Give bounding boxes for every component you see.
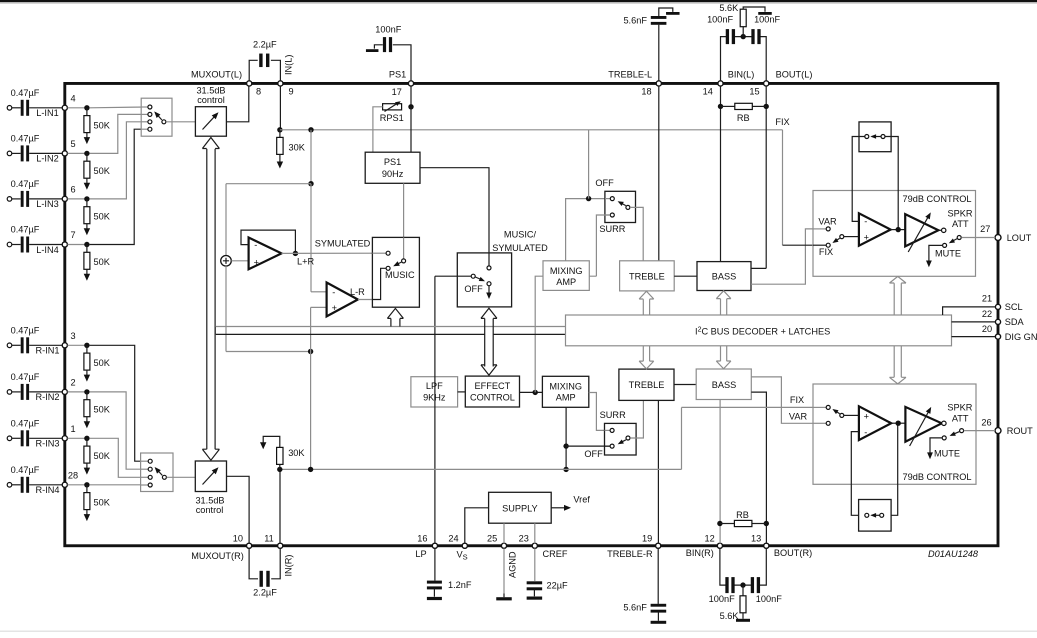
svg-text:79dB CONTROL: 79dB CONTROL xyxy=(903,472,972,482)
capacitor 5.6nF at TREBLE-L (top) xyxy=(658,25,660,81)
wire junction to summing node column xyxy=(226,183,311,185)
svg-text:26: 26 xyxy=(981,417,991,427)
wire pin 2 to 50K junction xyxy=(68,391,87,393)
svg-text:VAR: VAR xyxy=(789,411,808,421)
wire PS1 90Hz bottom to MUSIC selector right contact xyxy=(403,183,405,258)
resistor RB (lower) xyxy=(717,521,722,526)
feedback selector box (upper) xyxy=(859,122,891,152)
svg-text:0.47µF: 0.47µF xyxy=(11,133,40,143)
svg-text:3: 3 xyxy=(70,331,75,341)
svg-text:R-IN1: R-IN1 xyxy=(36,346,60,356)
wire L-R output to MUSIC selector lower contact xyxy=(358,299,381,301)
svg-text:50K: 50K xyxy=(94,451,111,461)
svg-text:5.6nF: 5.6nF xyxy=(623,602,647,612)
resistor 50K (R-IN3) xyxy=(86,438,88,446)
svg-text:79dB CONTROL: 79dB CONTROL xyxy=(903,194,972,204)
input terminal R-IN1 xyxy=(7,343,12,348)
resistor 50K (L-IN4) xyxy=(86,245,88,253)
svg-text:LOUT: LOUT xyxy=(1007,233,1032,243)
31.5dB control block (left) xyxy=(195,107,226,137)
svg-text:FIX: FIX xyxy=(819,247,833,257)
wire pin 9 down to 30K junction (IN(L) node) xyxy=(279,86,281,130)
svg-text:FIX: FIX xyxy=(790,395,804,405)
svg-text:MUTE: MUTE xyxy=(935,249,961,259)
svg-text:ATT: ATT xyxy=(952,413,969,423)
svg-text:R-IN4: R-IN4 xyxy=(36,485,60,495)
svg-text:-: - xyxy=(864,427,867,437)
svg-text:VAR: VAR xyxy=(818,217,837,227)
capacitors 2x 100nF between BIN(L) and BOUT(L) xyxy=(721,37,767,81)
pin 1 xyxy=(62,436,67,441)
hollow control arrow decoder to 79dB control (upper) xyxy=(893,283,895,315)
capacitor 0.47µF (R-IN1) xyxy=(12,344,21,346)
svg-text:0.47µF: 0.47µF xyxy=(11,88,40,98)
input terminal R-IN4 xyxy=(7,483,12,488)
VAR/FIX switch (upper) xyxy=(826,227,830,231)
svg-text:14: 14 xyxy=(703,87,713,97)
capacitor 0.47µF (L-IN4) xyxy=(12,244,21,246)
pin 7 xyxy=(62,242,67,247)
wire TREBLE to BASS (upper) xyxy=(674,275,697,277)
svg-text:100nF: 100nF xyxy=(707,15,733,25)
wire FIX (lower) from R-channel line xyxy=(682,407,827,469)
wire EFFECT CONTROL output to mixing amps xyxy=(520,391,543,393)
svg-text:20: 20 xyxy=(982,324,992,334)
hollow control arrow decoder to BASS (upper) xyxy=(720,299,722,315)
svg-text:50K: 50K xyxy=(94,404,111,414)
wire L-IN4/pin7 to mux-L contact 4 xyxy=(90,129,148,244)
svg-text:TREBLE-L: TREBLE-L xyxy=(608,69,652,79)
wire RPS1 left to PS1 90Hz input xyxy=(373,107,383,152)
svg-text:31.5dB: 31.5dB xyxy=(196,85,225,95)
svg-text:R-IN3: R-IN3 xyxy=(36,439,60,449)
svg-text:2.2µF: 2.2µF xyxy=(253,588,277,598)
block PS1 90Hz xyxy=(365,152,420,183)
wire LPF to EFFECT CONTROL xyxy=(458,391,466,393)
svg-text:MUXOUT(R): MUXOUT(R) xyxy=(191,551,244,561)
wire pin 6 to 50K junction xyxy=(68,198,87,200)
surround switch (upper) OFF/SURR xyxy=(605,191,636,222)
block I2C BUS DECODER + LATCHES xyxy=(566,315,952,346)
pin 23 CREF xyxy=(532,543,537,548)
wire pin 15 BOUT(L) to BASS right (upper) xyxy=(751,86,766,268)
wire pin 1 to 50K junction xyxy=(68,437,87,439)
wire TREBLE-L pin 18 down to TREBLE (upper) xyxy=(658,86,660,261)
pin 11 IN(R) xyxy=(278,543,283,548)
wire R-IN3/pin1 to mux-R contact 3 xyxy=(90,438,149,477)
wire stub PS1 into MUSIC box right contact xyxy=(403,237,405,258)
wire OFF contact to LPF column xyxy=(435,275,471,277)
pin 5 xyxy=(62,151,67,156)
svg-text:SPKR: SPKR xyxy=(947,402,972,412)
svg-text:SYMULATED: SYMULATED xyxy=(315,239,371,249)
gain-control bus to both 31.5dB blocks (hollow wire) xyxy=(206,149,208,449)
wire pin 4 to 50K junction xyxy=(68,107,87,109)
svg-text:MIXING: MIXING xyxy=(549,382,582,392)
input terminal L-IN4 xyxy=(7,242,12,247)
capacitor 0.47µF (R-IN2) xyxy=(12,391,21,393)
svg-text:R-IN2: R-IN2 xyxy=(36,392,60,402)
svg-text:22: 22 xyxy=(982,309,992,319)
svg-text:21: 21 xyxy=(982,294,992,304)
summing node (+) xyxy=(221,255,232,266)
wire junction up to IN(L) line xyxy=(588,130,590,199)
svg-text:DIG GND: DIG GND xyxy=(1005,332,1037,342)
pin 26 ROUT xyxy=(995,428,1001,434)
capacitor 1.2nF at LP pin 16 xyxy=(434,548,436,580)
wire lower MIXING AMP output to SURR switch xyxy=(589,393,610,431)
wire L-IN1/pin4 to mux-L contact 1 xyxy=(90,106,148,109)
pin 3 xyxy=(62,343,67,348)
control bus lower edge xyxy=(215,327,565,335)
svg-text:SPKR: SPKR xyxy=(947,209,972,219)
svg-text:BOUT(L): BOUT(L) xyxy=(776,69,813,79)
wire PS1 90Hz output to surround OFF switch (top contact) xyxy=(420,168,489,266)
pin 6 xyxy=(62,196,67,201)
svg-text:+: + xyxy=(254,257,259,267)
pin 22 SDA xyxy=(995,319,1000,324)
svg-text:22µF: 22µF xyxy=(547,580,569,590)
screen top edge bar xyxy=(0,0,1037,2)
resistor 50K (R-IN4) xyxy=(86,485,88,493)
svg-text:MUSIC/: MUSIC/ xyxy=(504,230,537,240)
mute switch (upper) xyxy=(957,236,961,240)
feedback wires (upper) xyxy=(852,137,864,222)
wire pin 3 to 50K junction xyxy=(68,344,87,346)
wire mux-R to 31.5dB control (right) xyxy=(167,476,196,478)
svg-text:ROUT: ROUT xyxy=(1007,426,1033,436)
svg-text:AMP: AMP xyxy=(556,277,576,287)
pin 16 LP xyxy=(432,543,437,548)
pin 12 BIN(R) xyxy=(717,543,722,548)
svg-text:0.47µF: 0.47µF xyxy=(11,372,40,382)
svg-text:5.6nF: 5.6nF xyxy=(623,16,647,26)
block BASS (upper) xyxy=(697,262,751,291)
wire R-IN2/pin2 to mux-R contact 2 xyxy=(90,392,149,469)
svg-text:LP: LP xyxy=(415,549,426,559)
svg-text:50K: 50K xyxy=(94,358,111,368)
wire R-IN1/pin3 to mux-R contact 1 xyxy=(90,345,149,461)
wire upper MIXING AMP output to SURR contact xyxy=(589,215,610,276)
svg-text:50K: 50K xyxy=(94,211,111,221)
block MIXING AMP (lower) xyxy=(542,376,588,407)
svg-text:6: 6 xyxy=(70,184,75,194)
svg-text:SYMULATED: SYMULATED xyxy=(492,243,548,253)
surround switch (lower) SURR/OFF xyxy=(605,423,637,455)
svg-text:L-IN2: L-IN2 xyxy=(36,154,58,164)
svg-text:1: 1 xyxy=(70,424,75,434)
hollow control branch to OFF switch and EFFECT CONTROL xyxy=(484,319,486,367)
wire down from IN(L) to L+R / L-R inputs xyxy=(310,130,312,184)
svg-text:13: 13 xyxy=(751,534,761,544)
svg-text:control: control xyxy=(197,95,225,105)
svg-text:L-IN3: L-IN3 xyxy=(36,199,58,209)
79dB CONTROL block (upper) xyxy=(813,191,976,277)
wire SUPPLY to pin 25 AGND xyxy=(503,523,505,543)
svg-text:I2C BUS DECODER + LATCHES: I2C BUS DECODER + LATCHES xyxy=(695,326,830,336)
resistor 50K (R-IN1) xyxy=(86,345,88,353)
svg-text:19: 19 xyxy=(642,534,652,544)
svg-text:TREBLE: TREBLE xyxy=(629,380,665,390)
wire TREBLE-R: TREBLE (lower) down to pin 19 xyxy=(657,400,659,543)
svg-text:0.47µF: 0.47µF xyxy=(11,225,40,235)
low-pass filter block LPF 9KHz xyxy=(411,377,458,407)
input terminal R-IN2 xyxy=(7,390,12,395)
svg-text:SCL: SCL xyxy=(1005,302,1023,312)
mute switch (lower) xyxy=(960,429,964,433)
input terminal L-IN2 xyxy=(7,151,12,156)
svg-text:AMP: AMP xyxy=(556,393,576,403)
svg-text:10: 10 xyxy=(233,534,243,544)
pin 28 xyxy=(62,482,67,487)
pin 4 xyxy=(62,105,67,110)
wire L+R output to MUSIC selector (SYMULATED) xyxy=(282,252,388,254)
svg-text:+: + xyxy=(864,233,869,243)
svg-text:5: 5 xyxy=(70,139,75,149)
wire SURR lower right contact to TREBLE (lower) xyxy=(630,400,643,438)
svg-text:Vref: Vref xyxy=(573,494,590,504)
block EFFECT CONTROL xyxy=(465,376,519,407)
pin 15 BOUT(L) xyxy=(764,81,769,86)
IC boundary box xyxy=(65,83,998,545)
79dB CONTROL block (lower) xyxy=(813,384,976,484)
wire summing node to L+R non-inverting input xyxy=(231,260,248,262)
selector switch box MUSIC/SYMULATED source xyxy=(372,237,419,307)
wire 31.5dB-R output to pin 10 xyxy=(227,476,250,543)
capacitor 0.47µF (L-IN3) xyxy=(12,198,21,200)
svg-text:30K: 30K xyxy=(289,143,306,153)
capacitor 2.2µF between pins 8 and 9 (top) xyxy=(249,60,280,81)
pin 17 PS1 xyxy=(408,81,413,86)
pin 18 TREBLE-L xyxy=(656,81,661,86)
resistor 50K (L-IN3) xyxy=(86,199,88,207)
capacitor 100nF at PS1 pin 17 xyxy=(393,45,411,81)
input terminal L-IN3 xyxy=(7,197,12,202)
svg-text:TREBLE: TREBLE xyxy=(629,272,665,282)
analog ground AGND xyxy=(503,548,505,593)
input selector mux (left) xyxy=(141,98,172,136)
Vref output arrow xyxy=(551,507,566,509)
svg-text:L-IN1: L-IN1 xyxy=(36,108,58,118)
svg-text:PS1: PS1 xyxy=(384,157,401,167)
resistor 50K (L-IN1) xyxy=(86,108,88,116)
pin 27 LOUT xyxy=(995,235,1001,241)
svg-text:L+R: L+R xyxy=(297,257,314,267)
pin 19 TREBLE-R xyxy=(656,543,661,548)
wire pin 17 junction down to PS1 90Hz xyxy=(410,107,412,152)
svg-text:5.6K: 5.6K xyxy=(719,3,739,13)
pin 9 IN(L) xyxy=(278,81,283,86)
svg-text:BASS: BASS xyxy=(712,380,737,390)
wire BASS (lower) var output to VAR contact (lower) xyxy=(751,377,826,423)
resistor 5.6K below 100nF junction (bottom) xyxy=(742,585,744,596)
svg-text:5.6K: 5.6K xyxy=(720,611,740,621)
svg-text:IN(L): IN(L) xyxy=(283,55,293,75)
svg-text:100nF: 100nF xyxy=(709,594,735,604)
input terminal L-IN1 xyxy=(7,106,12,111)
hollow control arrow decoder to TREBLE (lower) xyxy=(642,346,644,361)
control bus upper edge (to 31.5dB/MUSIC/OFF controls) xyxy=(215,326,565,328)
svg-text:25: 25 xyxy=(487,534,497,544)
wire stub FIX into 79dB box (upper) xyxy=(813,244,826,246)
svg-text:PS1: PS1 xyxy=(389,69,406,79)
svg-text:1.2nF: 1.2nF xyxy=(448,580,472,590)
svg-text:AGND: AGND xyxy=(508,551,518,578)
pin 10 MUXOUT(R) xyxy=(247,543,252,548)
svg-text:24: 24 xyxy=(448,534,458,544)
variable resistor RPS1 xyxy=(410,86,412,107)
wire SPKR ATT to pin 27 LOUT xyxy=(961,237,995,239)
svg-text:0.47µF: 0.47µF xyxy=(11,418,40,428)
svg-text:100nF: 100nF xyxy=(756,594,782,604)
wire stub VAR into 79dB box (upper) xyxy=(813,228,826,230)
svg-text:12: 12 xyxy=(704,534,714,544)
capacitor 0.47µF (R-IN3) xyxy=(12,437,21,439)
svg-text:EFFECT: EFFECT xyxy=(475,381,511,391)
wire decoder to pin 22 SDA xyxy=(952,321,996,323)
wire upper MIXING AMP top from surround switch xyxy=(566,199,611,261)
svg-text:FIX: FIX xyxy=(775,117,789,127)
svg-text:16: 16 xyxy=(417,534,427,544)
svg-text:7: 7 xyxy=(70,230,75,240)
svg-text:BIN(R): BIN(R) xyxy=(686,548,714,558)
wire R signal down to R-channel input line xyxy=(310,352,312,470)
wire decoder to pin 21 SCL xyxy=(943,307,996,315)
svg-text:CONTROL: CONTROL xyxy=(470,393,515,403)
VAR/FIX switch (lower) xyxy=(826,405,830,409)
pin 13 BOUT(R) xyxy=(764,543,769,548)
capacitor 22µF at CREF xyxy=(534,548,536,581)
svg-text:50K: 50K xyxy=(94,257,111,267)
pin 25 AGND xyxy=(501,543,506,548)
svg-text:BASS: BASS xyxy=(712,272,737,282)
capacitor 2.2µF between pins 10 and 11 (bottom) xyxy=(249,548,280,578)
svg-text:100nF: 100nF xyxy=(375,25,401,35)
wire switch common to op-amp + (lower) xyxy=(844,414,859,416)
feedback wires (lower) xyxy=(851,432,864,516)
wire inside MUSIC box from L-R input to lower contact xyxy=(372,268,386,299)
wire pin 28 to 50K junction xyxy=(68,484,87,486)
wire stub SYMULATED into MUSIC box xyxy=(372,252,385,254)
hollow control branch up to MUSIC selector xyxy=(390,319,392,327)
wire mux-L to 31.5dB control (left) xyxy=(166,121,195,123)
pin 20 DIG GND xyxy=(995,334,1000,339)
svg-text:31.5dB: 31.5dB xyxy=(195,495,224,505)
svg-text:50K: 50K xyxy=(94,497,111,507)
svg-text:BIN(L): BIN(L) xyxy=(728,69,755,79)
svg-text:0.47µF: 0.47µF xyxy=(11,325,40,335)
svg-text:17: 17 xyxy=(392,87,402,97)
op-amp (upper 79dB) xyxy=(859,213,891,245)
svg-text:23: 23 xyxy=(519,534,529,544)
wire pin 14 BIN(L) down to BASS (upper) xyxy=(720,86,722,262)
wire LPF column down through LPF to pin 16 xyxy=(434,276,436,543)
svg-text:9KHz: 9KHz xyxy=(423,393,446,403)
capacitor 0.47µF (L-IN2) xyxy=(12,152,21,154)
op-amp L+R xyxy=(249,238,282,270)
block TREBLE (upper) xyxy=(620,261,675,291)
svg-text:+: + xyxy=(864,412,869,422)
hollow control arrow decoder to BASS (lower) xyxy=(720,346,722,361)
svg-text:+: + xyxy=(332,303,337,313)
svg-text:100nF: 100nF xyxy=(754,15,780,25)
wire L input into L-R inverting input xyxy=(310,184,312,292)
capacitors 2x 100nF between BIN(R) and BOUT(R) xyxy=(720,548,766,585)
wire pin 11 IN(R) up to 30K junction xyxy=(279,469,281,543)
pin 14 BIN(L) xyxy=(718,81,723,86)
op-amp (lower 79dB) xyxy=(859,406,891,440)
svg-text:-: - xyxy=(864,216,867,226)
31.5dB control block (right) xyxy=(195,461,226,492)
feedback loop around L+R op-amp xyxy=(241,230,295,253)
variable attenuator amp (upper) xyxy=(905,214,938,246)
svg-text:-: - xyxy=(332,287,335,297)
block TREBLE (lower) xyxy=(619,369,674,400)
wire R-IN4/pin28 to mux-R contact 4 xyxy=(90,484,149,486)
svg-text:OFF: OFF xyxy=(464,284,483,294)
svg-text:30K: 30K xyxy=(288,448,305,458)
svg-text:MUTE: MUTE xyxy=(934,449,960,459)
svg-text:TREBLE-R: TREBLE-R xyxy=(607,549,653,559)
wire IN(L) node across to FIX corner (upper) xyxy=(280,129,783,131)
svg-text:control: control xyxy=(196,505,224,515)
wire op-amp output to variable attenuator (lower) xyxy=(891,422,905,424)
input terminal R-IN3 xyxy=(7,436,12,441)
svg-text:LPF: LPF xyxy=(426,381,443,391)
wire stub FIX into 79dB box (lower) xyxy=(813,406,826,408)
svg-text:50K: 50K xyxy=(94,166,111,176)
pin 2 xyxy=(62,389,67,394)
resistor 30K (right) xyxy=(277,447,283,464)
svg-text:0.47µF: 0.47µF xyxy=(11,465,40,475)
svg-text:2.2µF: 2.2µF xyxy=(253,40,277,50)
svg-text:SUPPLY: SUPPLY xyxy=(502,504,538,514)
resistor 50K (R-IN2) xyxy=(86,392,88,400)
variable attenuator amp (lower) xyxy=(905,407,941,442)
pin 21 SCL xyxy=(995,304,1000,309)
block SUPPLY xyxy=(489,492,552,523)
wire L-IN3/pin6 to mux-L contact 3 xyxy=(90,122,148,199)
resistor RB (upper) xyxy=(718,104,723,109)
capacitor 0.47µF (L-IN1) xyxy=(12,107,21,109)
svg-text:RB: RB xyxy=(736,510,749,520)
wire BASS var output to VAR contact (upper) xyxy=(751,229,826,284)
svg-text:ATT: ATT xyxy=(952,219,969,229)
op-amp L-R xyxy=(327,283,358,317)
svg-text:28: 28 xyxy=(68,470,78,480)
svg-text:L-R: L-R xyxy=(350,287,365,297)
wire SUPPLY to pin 23 CREF xyxy=(534,523,536,543)
selector switch box MUSIC/SYMULATED vs OFF xyxy=(457,253,511,307)
svg-text:OFF: OFF xyxy=(584,449,603,459)
svg-text:18: 18 xyxy=(641,87,651,97)
pin 8 MUXOUT(L) xyxy=(247,81,252,86)
wire stub VAR into 79dB box (lower) xyxy=(813,422,826,424)
svg-text:-: - xyxy=(254,240,257,250)
capacitor 5.6nF at TREBLE-R (bottom) xyxy=(657,548,659,604)
wire SURR right contact to TREBLE (upper) xyxy=(630,207,643,260)
svg-text:RB: RB xyxy=(737,113,750,123)
wire mute to internal ground arrow (upper) xyxy=(929,245,943,261)
wire pin 5 to 50K junction xyxy=(68,152,87,154)
wire switch common to op-amp + (upper) xyxy=(844,236,859,238)
wire TREBLE to BASS (lower) xyxy=(674,384,696,386)
svg-text:9: 9 xyxy=(288,87,293,97)
svg-text:27: 27 xyxy=(980,224,990,234)
svg-text:90Hz: 90Hz xyxy=(382,169,404,179)
svg-text:OFF: OFF xyxy=(595,178,614,188)
wire SUPPLY to pin 24 VS xyxy=(465,508,489,544)
